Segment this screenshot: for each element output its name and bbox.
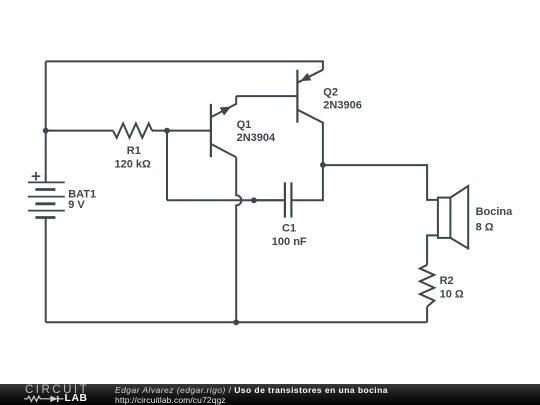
junction dot Q1 collector / bottom rail — [233, 319, 239, 325]
resistor R1 — [113, 123, 152, 137]
CircuitLab logo — [24, 385, 94, 405]
svg-text:100 nF: 100 nF — [272, 236, 307, 248]
junction dot battery/R1 node — [43, 128, 49, 134]
wire bottom rail — [46, 321, 427, 323]
svg-text:R2: R2 — [440, 275, 454, 287]
svg-text:Q1: Q1 — [237, 119, 252, 131]
svg-text:2N3906: 2N3906 — [323, 100, 362, 112]
svg-text:Bocina: Bocina — [476, 206, 514, 218]
junction dot on C1 left wire — [251, 197, 257, 203]
svg-text:120 kΩ: 120 kΩ — [115, 158, 152, 170]
svg-text:C1: C1 — [282, 222, 296, 234]
wire Q2 collector node to speaker — [323, 165, 438, 200]
logo squiggle: wire-resistor-diode glyph — [24, 385, 94, 405]
footer bar — [0, 384, 540, 405]
svg-text:9 V: 9 V — [68, 199, 85, 211]
wire battery negative vertical — [45, 218, 47, 323]
svg-text:8 Ω: 8 Ω — [476, 221, 494, 233]
junction dot R1/Q1-base/C1 node — [164, 128, 170, 134]
svg-text:2N3904: 2N3904 — [237, 132, 276, 144]
wire C1 right plate to Q2 collector node — [292, 165, 323, 200]
transistor Q2 2N3906 — [297, 70, 323, 165]
wire speaker bottom to R2 — [427, 235, 438, 264]
wire node B drop from R1/base junction — [166, 131, 168, 201]
battery BAT1 — [28, 172, 65, 218]
wire Q1 collector down with hop over C1 wire — [236, 157, 241, 322]
speaker Bocina — [438, 186, 468, 249]
wire battery + to R1 — [46, 130, 113, 132]
svg-text:R1: R1 — [127, 145, 141, 157]
svg-text:10 Ω: 10 Ω — [440, 289, 464, 301]
wire Q1 emitter to Q2 base — [236, 95, 297, 97]
transistor Q1 2N3904 — [211, 96, 236, 157]
resistor R2 — [420, 265, 434, 307]
junction dot Q2 collector / C1 / speaker — [320, 162, 326, 168]
credit text — [115, 385, 388, 405]
wire top rail (battery + to Q2 emitter) — [46, 61, 323, 69]
wire R1 to Q1 base — [152, 130, 211, 132]
svg-text:Q2: Q2 — [323, 87, 338, 99]
wire node B horizontal to C1 left plate — [167, 199, 284, 201]
wire battery positive vertical — [45, 61, 47, 182]
capacitor C1 — [254, 182, 292, 217]
wire R2 to bottom rail — [426, 307, 428, 323]
